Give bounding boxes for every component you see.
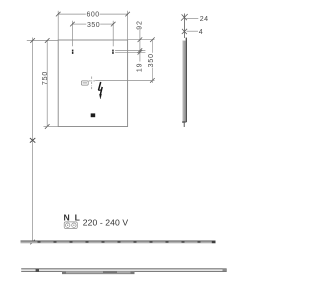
junction box centerline cross (dash-dot)	[89, 77, 95, 90]
plug terminals icon	[64, 222, 77, 229]
variable height X marker	[30, 138, 35, 143]
svg-text:4: 4	[199, 29, 203, 36]
extension line 350 right	[112, 21, 114, 47]
lightning bolt symbol	[98, 82, 102, 99]
dim 24 leader	[186, 17, 198, 19]
middle plate under lead	[62, 272, 135, 274]
extension line left edge up to 600 dim	[57, 11, 59, 40]
dim 4 leader	[187, 30, 198, 32]
mirror outline (front view)	[58, 40, 127, 127]
dimension 600 arrow slash right	[125, 12, 130, 17]
dim 19 arrow slash at hanger lower	[138, 50, 143, 55]
dimension 350 arrow slash left	[70, 22, 75, 27]
connector mark on lead	[36, 269, 39, 272]
dim 92/19 arrow slash at hanger upper	[138, 48, 143, 53]
wall height arrow slash bottom	[30, 240, 35, 245]
dim 92 arrow slash at top edge	[138, 37, 143, 42]
svg-text:750: 750	[42, 71, 49, 85]
svg-text:220 - 240 V: 220 - 240 V	[83, 218, 129, 228]
dimension 350 right vertical line	[151, 40, 153, 53]
dimension 350 line	[72, 23, 86, 25]
dimension 750 line	[46, 40, 48, 127]
side view glass panel	[182, 38, 187, 127]
sensor switch (black square)	[91, 113, 96, 117]
dimension 750 arrow slash bottom	[45, 124, 50, 129]
hanger right	[112, 50, 114, 54]
svg-text:L: L	[75, 212, 80, 222]
dimension 750 arrow slash top	[45, 38, 50, 43]
svg-text:350: 350	[148, 53, 155, 67]
junction box icon	[81, 81, 88, 85]
dim 24 arrow cross	[181, 14, 188, 21]
lead right end taper	[223, 269, 227, 272]
extension line hanger level upper	[115, 50, 145, 52]
svg-text:19: 19	[137, 63, 144, 73]
dimension 600 arrow slash left	[56, 12, 61, 17]
dimension 600 line	[58, 13, 86, 15]
rail right end cap	[212, 241, 216, 244]
dim 4 arrow cross	[182, 29, 187, 34]
extension line mirror bottom edge extended left	[44, 126, 59, 128]
wall height dimension line (variable)	[32, 38, 34, 243]
power lead profile (lower band)	[21, 269, 227, 274]
extension line hanger level lower	[115, 51, 145, 53]
extension line top-left (mirror top edge extended left)	[27, 40, 58, 42]
extension line top edge extended right	[128, 39, 155, 41]
extension line 350 left	[71, 21, 73, 47]
hanger left	[72, 50, 74, 54]
side view dim extension vertical	[184, 14, 186, 39]
dim 350 right arrow slash top	[150, 37, 155, 42]
svg-text:N: N	[64, 212, 70, 222]
svg-text:24: 24	[200, 16, 209, 23]
rail slot marks	[38, 241, 201, 243]
wall height arrow slash top	[30, 38, 35, 43]
svg-text:350: 350	[87, 22, 100, 29]
svg-text:600: 600	[87, 12, 100, 19]
svg-text:92: 92	[137, 20, 144, 30]
extension line right edge up to 600 dim	[127, 11, 129, 40]
dimension 92/19 vertical line	[139, 29, 141, 61]
mounting rail (upper band)	[21, 241, 216, 244]
dim 350 right arrow slash bottom	[150, 78, 155, 83]
extension line junction box level	[95, 80, 154, 82]
dimension 350 arrow slash right	[111, 22, 116, 27]
